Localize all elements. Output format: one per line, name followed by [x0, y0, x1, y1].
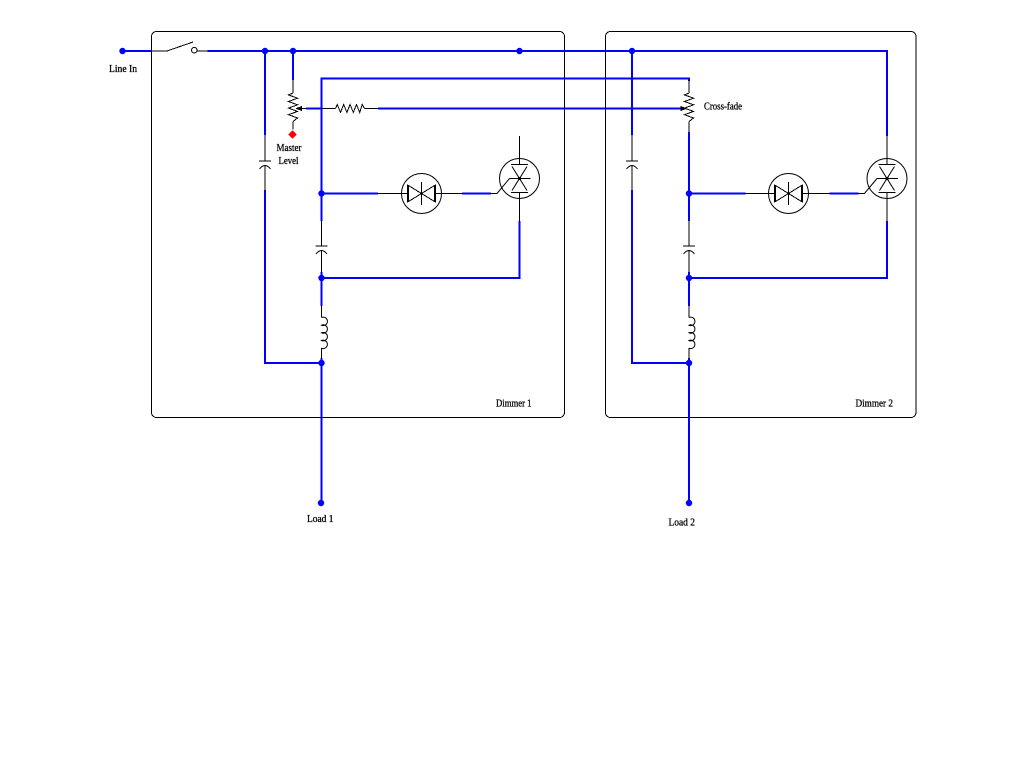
- wire inductor L1 to Load 1: [321, 358, 323, 503]
- wire between capacitor C2 and inductor L1: [321, 272, 323, 306]
- potentiometer Master Level: [289, 80, 307, 130]
- svg-text:Level: Level: [279, 155, 299, 167]
- terminal marker Master Level (red diamond): [288, 130, 296, 139]
- svg-text:Dimmer 2: Dimmer 2: [856, 398, 894, 410]
- wire vertical main node Dimmer 1: [321, 78, 323, 222]
- node Load 1: [318, 500, 324, 506]
- wire capacitor C3 down and across to inductor node 2: [632, 190, 689, 363]
- resistor R1: [323, 105, 379, 113]
- box Dimmer 1: [152, 32, 565, 418]
- wire down to capacitor C3: [631, 51, 633, 135]
- wire capacitor C1 down and across to inductor node: [265, 190, 322, 363]
- triac Q1: [491, 136, 540, 221]
- wire resistor R1 to cross-fade wiper: [378, 108, 681, 110]
- wire inductor L2 to Load 2: [688, 358, 690, 503]
- wire down to potentiometer Master Level: [292, 51, 294, 80]
- svg-text:Dimmer 1: Dimmer 1: [496, 398, 532, 410]
- wire between capacitor C4 and inductor L2: [688, 272, 690, 306]
- potentiometer Cross-fade: [681, 80, 694, 132]
- wire Line In to switch: [123, 50, 152, 52]
- wire node 2 to diac D2: [689, 193, 746, 195]
- wire row B across to cross-fade pot: [321, 79, 690, 82]
- diac D2: [746, 174, 830, 214]
- wire node to diac D1: [322, 193, 379, 195]
- capacitor C2: [316, 221, 328, 272]
- svg-text:Master: Master: [277, 142, 302, 154]
- node Line In: [119, 48, 125, 54]
- wire top bus from switch to Dimmer 2 right corner, down to triac Q2: [208, 51, 888, 136]
- capacitor C4: [683, 221, 695, 272]
- svg-text:Load 2: Load 2: [669, 517, 696, 529]
- wire cross-fade pot down vertical main node Dimmer 2: [688, 132, 690, 221]
- svg-text:Load 1: Load 1: [307, 513, 334, 525]
- wire down to capacitor C1: [264, 51, 266, 135]
- junction dots: [262, 48, 268, 54]
- inductor L2: [689, 306, 695, 358]
- capacitor C3: [626, 135, 638, 190]
- capacitor C1: [259, 135, 271, 190]
- inductor L1: [322, 306, 328, 358]
- diac D1: [378, 174, 462, 214]
- switch S1: [152, 42, 208, 53]
- svg-text:Cross-fade: Cross-fade: [704, 101, 742, 113]
- box Dimmer 2: [606, 32, 917, 418]
- wire triac Q2 bottom to node 2: [689, 221, 887, 278]
- wire triac Q1 bottom to node: [322, 221, 520, 278]
- node Load 2: [686, 500, 692, 506]
- wire pot wiper to vertical: [306, 108, 323, 110]
- wire diac D1 to triac Q1 gate: [462, 193, 491, 195]
- svg-text:Line In: Line In: [109, 63, 137, 75]
- triac Q2: [859, 136, 908, 221]
- wire diac D2 to triac Q2 gate: [830, 193, 859, 195]
